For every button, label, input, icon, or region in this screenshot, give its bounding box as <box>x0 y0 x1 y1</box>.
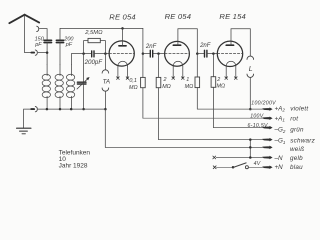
resistor R1 2.5M leads <box>84 41 88 54</box>
wire antenna down-lead <box>25 15 32 52</box>
capacitor C2 200pF plates <box>56 40 63 42</box>
node L / +A2 rail <box>249 108 252 111</box>
node link -G1 <box>249 138 252 141</box>
svg-text:Jahr 1928: Jahr 1928 <box>59 163 88 170</box>
node coupling C6 left <box>196 52 199 55</box>
svg-text:pF: pF <box>65 42 73 48</box>
svg-text:6-10,5V: 6-10,5V <box>248 123 269 129</box>
wire rail -G2 <box>213 127 263 129</box>
capacitor C5 2nF plates <box>150 50 152 57</box>
node TA / ground bus <box>104 108 107 111</box>
svg-text:–N: –N <box>274 155 284 162</box>
wire TA branch down to weiss rail <box>104 109 106 147</box>
node grid rail / TA branch <box>104 52 107 55</box>
wire link G1-weiss-N <box>249 140 251 158</box>
jack TA lower <box>102 88 109 91</box>
wire C6 to V3 grid <box>207 53 217 55</box>
svg-text:violett: violett <box>290 106 308 113</box>
ground plug tip <box>31 108 34 110</box>
tube V1 anode lead <box>122 28 124 45</box>
switch S1 <box>232 166 235 169</box>
wire jack to node <box>38 52 47 54</box>
node grid leak R3 <box>157 52 160 55</box>
wire R4 bottom to +A2 rail <box>196 88 198 110</box>
wire R2 top <box>142 54 144 78</box>
tube V3 grid <box>217 53 242 55</box>
svg-text:RE 154: RE 154 <box>219 12 246 21</box>
terminal arrow -G2 <box>262 126 272 130</box>
svg-text:2nF: 2nF <box>145 44 157 50</box>
tube V2 filament x marks <box>172 77 184 80</box>
svg-text:2,5MΩ: 2,5MΩ <box>84 30 103 36</box>
svg-text:RE 054: RE 054 <box>165 12 192 21</box>
wire C2 bottom to coil2 <box>59 43 61 65</box>
tube V1 anode bar <box>119 45 126 47</box>
wire grid rail from coil3 <box>71 54 91 65</box>
wire rail -G1 <box>159 139 264 141</box>
tube V3 RE154 envelope <box>217 41 242 66</box>
node C4 / ground bus <box>82 108 85 111</box>
svg-text:TA: TA <box>103 78 110 85</box>
capacitor C6 2nF plates <box>205 50 207 57</box>
tube V2 filament <box>173 61 183 66</box>
svg-text:0,1: 0,1 <box>129 78 137 84</box>
tube V2 grid <box>165 53 190 55</box>
terminal arrow +A2 <box>262 107 272 111</box>
wire coupling to C5 <box>143 53 150 55</box>
svg-text:gelb: gelb <box>290 155 303 162</box>
tube V2 RE054 envelope <box>165 41 190 66</box>
svg-text:1: 1 <box>186 77 189 83</box>
wire R2 bottom to +A1 rail <box>142 88 144 119</box>
wire C4 to ground bus <box>83 84 85 109</box>
jack L upper <box>247 56 254 59</box>
node link weiss <box>249 146 252 149</box>
tube V3 anode bar <box>226 44 233 46</box>
wire L lower to +A2 rail <box>249 77 251 109</box>
wire C2 top to anode bus <box>60 28 143 40</box>
resistor R3 2M body <box>156 77 161 87</box>
jack ground <box>35 106 37 111</box>
capacitor C4 tuning lead <box>83 54 85 83</box>
tube V3 anode lead <box>231 29 250 56</box>
wire C1 bottom to coil1 <box>46 43 48 65</box>
jack L lower <box>247 74 254 77</box>
wire ground branch <box>24 109 32 128</box>
svg-text:2: 2 <box>163 77 167 83</box>
svg-text:pF: pF <box>34 42 42 48</box>
terminal arrow -G1 <box>262 138 272 142</box>
capacitor C3 200pF grid plates <box>92 51 94 57</box>
node antenna/C1 junction <box>46 51 49 54</box>
capacitor C4 tuning plates <box>77 82 86 84</box>
node grid leak R5 <box>212 52 215 55</box>
ground bus <box>38 108 105 110</box>
capacitor C4 arrow <box>77 78 88 89</box>
wire R3 bottom to -G1 rail <box>158 88 160 140</box>
wire rail weiss <box>105 146 263 148</box>
tube V1 RE054 envelope <box>109 41 134 66</box>
wire R4 top <box>196 54 198 77</box>
jack antenna upper <box>37 26 39 31</box>
svg-text:L: L <box>249 66 253 73</box>
wire R3 top <box>158 54 160 78</box>
terminal arrow -N <box>262 156 272 160</box>
terminal arrow weiss <box>262 146 272 150</box>
antenna <box>9 15 39 24</box>
node coupling C5 left <box>142 52 145 55</box>
x mark -N <box>213 156 216 159</box>
node anode bus / V1 anode <box>121 27 124 30</box>
svg-text:MΩ: MΩ <box>217 84 226 90</box>
svg-text:+N: +N <box>275 164 284 171</box>
tube V2 anode lead <box>178 29 197 54</box>
wire rail +A2 <box>197 108 263 110</box>
wire TA branch <box>104 54 106 70</box>
wire switch to terminal <box>249 166 264 168</box>
svg-text:weiß: weiß <box>290 146 304 153</box>
wire upper jack to C1 <box>40 29 48 41</box>
svg-text:rot: rot <box>290 115 298 122</box>
node coil1 bus <box>46 108 49 111</box>
x mark +N <box>213 166 216 169</box>
svg-text:200pF: 200pF <box>84 59 104 66</box>
svg-text:100/200V: 100/200V <box>251 101 276 107</box>
wire TA lower to ground bus <box>104 91 106 109</box>
terminal arrow +A1 <box>262 116 272 120</box>
svg-text:schwarz: schwarz <box>290 138 315 145</box>
wire rail +A1 <box>143 117 264 119</box>
svg-text:2: 2 <box>216 77 220 83</box>
wire grid rail to V1 <box>94 53 109 55</box>
jack TA upper <box>102 70 109 73</box>
inductor L1 antenna coil <box>42 65 50 109</box>
antenna plug tip <box>31 52 34 54</box>
capacitor C1 150pF plates <box>44 40 51 42</box>
resistor R5 2M body <box>211 77 216 88</box>
wire V1 anode top bus corner down <box>142 28 144 53</box>
svg-text:RE 054: RE 054 <box>109 12 136 21</box>
inductor L3 grid coil <box>66 65 74 109</box>
node grid rail / tuning cap <box>82 52 85 55</box>
node link -N <box>249 156 252 159</box>
tube V2 anode bar <box>173 44 180 46</box>
wire rail +N left segment <box>216 166 233 168</box>
node coil3 bus <box>70 108 73 111</box>
tube V1 grid <box>109 53 134 55</box>
wire R5 bottom to -G2 rail <box>212 87 214 127</box>
svg-text:2nF: 2nF <box>199 43 211 49</box>
svg-text:MΩ: MΩ <box>162 84 171 90</box>
svg-text:MΩ: MΩ <box>185 84 194 90</box>
ground symbol <box>17 128 31 134</box>
inductor L2 feedback coil <box>55 65 63 109</box>
tube V3 filament <box>226 61 236 66</box>
svg-text:blau: blau <box>290 164 303 171</box>
terminal arrow +N <box>262 166 272 170</box>
wire C5 to V2 grid <box>153 53 165 55</box>
svg-text:100V: 100V <box>250 114 264 120</box>
svg-text:MΩ: MΩ <box>129 85 138 91</box>
svg-text:4V: 4V <box>254 161 261 167</box>
tube V1 filament <box>118 61 128 66</box>
jack antenna lower <box>35 50 37 55</box>
wire coupling to C6 <box>197 53 204 55</box>
tube V3 filament x marks <box>225 77 237 80</box>
node coil2 bus <box>59 108 62 111</box>
tube V1 filament x marks <box>117 77 129 80</box>
svg-text:grün: grün <box>290 127 304 134</box>
wire R5 top <box>212 54 214 77</box>
resistor R1 2.5M body <box>88 38 100 42</box>
resistor R2 0.1M body <box>141 77 146 87</box>
wire rail -N <box>216 157 264 159</box>
resistor R4 1M body <box>195 77 200 88</box>
